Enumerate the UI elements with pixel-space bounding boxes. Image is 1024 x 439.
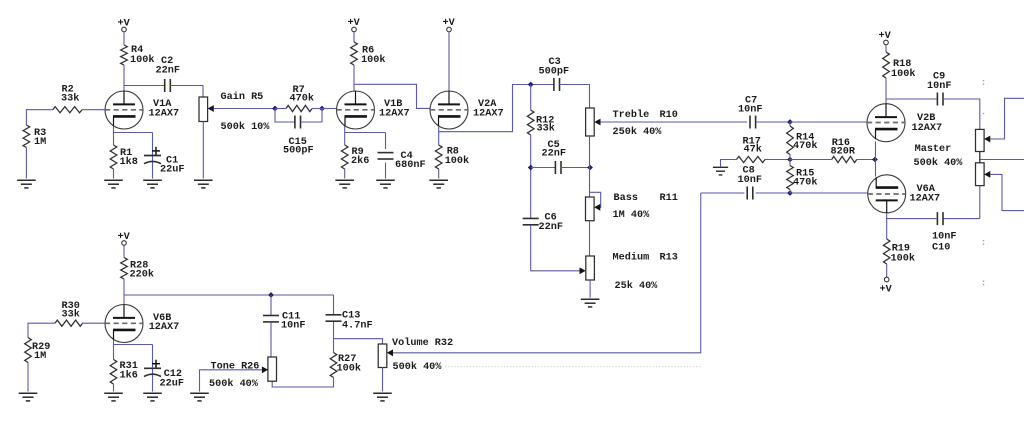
svg-text:100k: 100k: [891, 68, 915, 80]
svg-text:100k: 100k: [891, 253, 915, 265]
svg-text:12AX7: 12AX7: [149, 109, 180, 120]
svg-text:12AX7: 12AX7: [473, 109, 504, 120]
svg-text:22nF: 22nF: [539, 222, 563, 233]
svg-text:4.7nF: 4.7nF: [342, 321, 373, 332]
svg-text:12AX7: 12AX7: [910, 194, 941, 205]
svg-text:2k6: 2k6: [351, 155, 369, 167]
svg-text:1k8: 1k8: [120, 156, 138, 168]
svg-text:Tone R26: Tone R26: [211, 362, 260, 373]
svg-text:R13: R13: [660, 253, 678, 264]
svg-text:100k: 100k: [130, 54, 154, 66]
svg-text:22uF: 22uF: [160, 379, 184, 390]
svg-text:+V: +V: [118, 19, 131, 30]
svg-text:1k6: 1k6: [120, 370, 138, 382]
svg-text:10nF: 10nF: [738, 105, 762, 116]
svg-text:10nF: 10nF: [738, 175, 762, 186]
svg-text:33k: 33k: [61, 93, 79, 105]
svg-text:+V: +V: [879, 31, 892, 42]
svg-text:220k: 220k: [130, 269, 154, 281]
svg-text:12AX7: 12AX7: [149, 322, 180, 333]
svg-text:+V: +V: [880, 285, 893, 296]
svg-text:1M: 1M: [34, 351, 46, 362]
svg-text:1M 40%: 1M 40%: [613, 210, 651, 221]
svg-text:470k: 470k: [793, 177, 817, 189]
svg-text:500k 10%: 500k 10%: [221, 121, 271, 133]
svg-text:100k: 100k: [361, 54, 385, 66]
svg-text:680nF: 680nF: [395, 160, 426, 171]
svg-text:25k 40%: 25k 40%: [615, 280, 659, 292]
svg-text:Gain R5: Gain R5: [221, 91, 264, 103]
svg-text:1M: 1M: [34, 137, 46, 148]
svg-text:100k: 100k: [445, 155, 469, 167]
svg-text:500k 40%: 500k 40%: [393, 361, 443, 373]
svg-text:Bass: Bass: [614, 193, 638, 204]
svg-text:+V: +V: [443, 18, 456, 29]
svg-text:500pF: 500pF: [283, 146, 314, 157]
svg-text:Volume R32: Volume R32: [392, 337, 453, 349]
svg-text:C10: C10: [932, 243, 950, 254]
svg-text:250k 40%: 250k 40%: [613, 126, 663, 138]
svg-text:22uF: 22uF: [160, 165, 184, 176]
svg-text:22nF: 22nF: [542, 149, 566, 160]
svg-text:820R: 820R: [831, 147, 856, 158]
svg-text:470k: 470k: [290, 93, 314, 105]
svg-text:470k: 470k: [793, 140, 817, 152]
svg-text:10nF: 10nF: [932, 232, 956, 243]
svg-text:+V: +V: [348, 18, 361, 29]
svg-text:10nF: 10nF: [927, 81, 951, 92]
svg-text:33k: 33k: [537, 123, 555, 135]
svg-text:33k: 33k: [62, 309, 80, 321]
svg-text:Medium: Medium: [613, 252, 650, 264]
svg-text:500pF: 500pF: [539, 67, 570, 78]
svg-text:12AX7: 12AX7: [912, 123, 943, 134]
svg-text:Treble: Treble: [613, 109, 650, 121]
svg-text:22nF: 22nF: [156, 66, 180, 77]
svg-text:500k 40%: 500k 40%: [914, 157, 964, 169]
svg-text:47k: 47k: [744, 144, 762, 156]
svg-text:+V: +V: [118, 232, 131, 243]
svg-text:Master: Master: [915, 144, 952, 155]
svg-text:R11: R11: [660, 193, 678, 204]
svg-text:12AX7: 12AX7: [379, 109, 410, 120]
svg-text:500k 40%: 500k 40%: [209, 378, 259, 390]
svg-text:10nF: 10nF: [281, 321, 305, 332]
svg-text:100k: 100k: [337, 363, 361, 375]
svg-text:R10: R10: [660, 110, 678, 121]
